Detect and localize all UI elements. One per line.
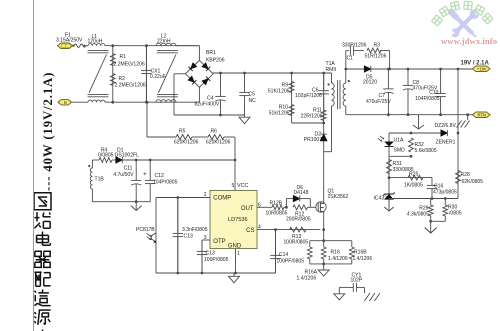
svg-text:T1B: T1B xyxy=(95,177,105,183)
svg-text:10R/0805: 10R/0805 xyxy=(266,211,288,217)
svg-text:3.3nF/0805: 3.3nF/0805 xyxy=(182,227,208,233)
svg-text:C13: C13 xyxy=(184,233,193,239)
svg-text:102P: 102P xyxy=(351,277,363,283)
svg-text:C14: C14 xyxy=(279,252,288,258)
svg-text:4.7u/50V: 4.7u/50V xyxy=(113,172,134,178)
svg-text:62K/0805: 62K/0805 xyxy=(462,179,484,185)
svg-text:C13: C13 xyxy=(206,251,215,257)
svg-text:4: 4 xyxy=(258,224,261,230)
svg-text:+: + xyxy=(143,171,147,178)
svg-text:104P/0805: 104P/0805 xyxy=(415,96,440,102)
svg-text:4.3k/0805: 4.3k/0805 xyxy=(407,212,429,218)
svg-text:1: 1 xyxy=(237,251,240,257)
svg-text:D4148: D4148 xyxy=(294,190,309,196)
svg-text:OTP: OTP xyxy=(213,239,225,245)
svg-text:www.jdwx.info: www.jdwx.info xyxy=(441,36,498,46)
svg-text:LD7536: LD7536 xyxy=(228,217,248,223)
svg-text:IC432: IC432 xyxy=(374,196,388,202)
svg-text:2.2MEG/1206: 2.2MEG/1206 xyxy=(114,62,145,68)
svg-text:120uH: 120uH xyxy=(88,39,103,45)
svg-text:0/0805: 0/0805 xyxy=(98,153,114,159)
svg-text:2SK3562: 2SK3562 xyxy=(328,194,349,200)
svg-text:6: 6 xyxy=(258,202,261,208)
svg-text:C7: C7 xyxy=(379,93,386,99)
svg-text:R16B: R16B xyxy=(354,250,367,256)
svg-text:C5: C5 xyxy=(249,92,256,98)
svg-text:KBP206: KBP206 xyxy=(206,58,225,64)
svg-text:0.22uF: 0.22uF xyxy=(150,74,166,80)
svg-text:R25: R25 xyxy=(409,172,418,178)
svg-text:GS1002FL: GS1002FL xyxy=(115,153,140,159)
svg-text:VCC: VCC xyxy=(237,183,248,189)
svg-text:1.4/1206: 1.4/1206 xyxy=(328,256,348,262)
svg-text:ZENER1: ZENER1 xyxy=(436,140,456,146)
svg-text:NC: NC xyxy=(249,98,257,104)
svg-text:R28: R28 xyxy=(461,172,470,178)
svg-text:1.4/1206: 1.4/1206 xyxy=(353,256,373,262)
svg-text:SMD: SMD xyxy=(394,148,406,154)
svg-text:22mH: 22mH xyxy=(157,38,171,44)
svg-text:R12B: R12B xyxy=(270,201,283,207)
svg-text:C1: C1 xyxy=(347,56,354,62)
svg-text:1K/0805: 1K/0805 xyxy=(404,183,423,189)
svg-text:RMII: RMII xyxy=(326,67,337,73)
svg-text:R1: R1 xyxy=(120,54,127,60)
svg-text:/0805: /0805 xyxy=(449,211,462,217)
svg-text:3.15A/250V: 3.15A/250V xyxy=(56,38,83,44)
svg-text:BR1: BR1 xyxy=(206,50,216,56)
svg-text:1.4/1206: 1.4/1206 xyxy=(297,275,317,281)
svg-text:C16: C16 xyxy=(434,184,443,190)
svg-text:DZ2/6.8V: DZ2/6.8V xyxy=(435,123,457,129)
svg-text:U1A: U1A xyxy=(394,138,404,144)
svg-text:R3: R3 xyxy=(374,43,381,49)
svg-text:470uF/25V: 470uF/25V xyxy=(366,99,391,105)
svg-text:2.2MEG/1206: 2.2MEG/1206 xyxy=(115,83,146,89)
svg-text:--- 40W (19V/2.1A): --- 40W (19V/2.1A) xyxy=(41,72,55,191)
svg-text:200R/0805: 200R/0805 xyxy=(286,217,311,223)
svg-text:100R/0805: 100R/0805 xyxy=(284,239,309,245)
svg-text:330P/1206: 330P/1206 xyxy=(342,43,367,49)
svg-text:+19V: +19V xyxy=(477,66,487,71)
svg-text:R5: R5 xyxy=(179,129,186,135)
svg-text:C12: C12 xyxy=(155,173,164,179)
svg-text:R6: R6 xyxy=(211,129,218,135)
svg-text:473p/0805: 473p/0805 xyxy=(433,190,457,196)
svg-text:102pF/1206: 102pF/1206 xyxy=(295,93,322,99)
svg-text:N: N xyxy=(64,100,67,105)
svg-text:OUT: OUT xyxy=(241,206,254,212)
svg-text:100P/0805: 100P/0805 xyxy=(204,257,229,263)
svg-text:104P/0805: 104P/0805 xyxy=(153,180,178,186)
svg-text:CS: CS xyxy=(246,228,254,234)
svg-text:C11: C11 xyxy=(124,166,133,172)
svg-text:620K/1206: 620K/1206 xyxy=(206,140,231,146)
svg-text:COMP: COMP xyxy=(213,196,231,202)
svg-text:22R/1206: 22R/1206 xyxy=(301,114,323,120)
svg-text:51K/1206: 51K/1206 xyxy=(268,89,290,95)
svg-text:2: 2 xyxy=(204,192,207,198)
svg-text:RTN: RTN xyxy=(477,112,486,117)
svg-text:100PF/0805: 100PF/0805 xyxy=(277,258,305,264)
svg-text:51k/1206: 51k/1206 xyxy=(269,111,290,117)
svg-text:5.6k/0805: 5.6k/0805 xyxy=(415,148,437,154)
svg-text:GND: GND xyxy=(228,244,242,250)
svg-text:82uF/400V: 82uF/400V xyxy=(195,102,220,108)
svg-text:5: 5 xyxy=(232,183,235,189)
svg-text:20120: 20120 xyxy=(363,80,377,86)
svg-text:PC817B: PC817B xyxy=(136,227,155,233)
svg-text:620K/1206: 620K/1206 xyxy=(174,140,199,146)
svg-text:R2: R2 xyxy=(119,76,126,82)
svg-text:R16: R16 xyxy=(331,250,340,256)
svg-text:PR1007: PR1007 xyxy=(304,137,322,143)
svg-text:3: 3 xyxy=(204,235,207,241)
svg-text:51R/1206: 51R/1206 xyxy=(365,54,387,60)
